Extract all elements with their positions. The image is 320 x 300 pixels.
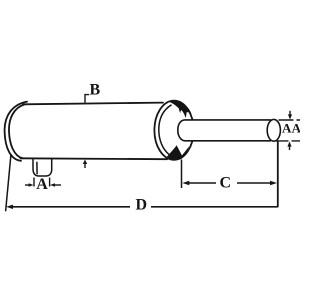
muffler body top line <box>23 103 163 105</box>
left end cap outer arc <box>5 102 27 161</box>
dimension A (stub) right extension tick <box>49 178 51 187</box>
outlet pipe end ellipse <box>267 119 280 141</box>
dimension C/D right extension line <box>277 142 279 208</box>
dimension C line right segment with arrow <box>237 182 271 184</box>
pipe diameter top extension line <box>279 119 301 121</box>
muffler body bottom line <box>21 157 168 160</box>
left end cap inner arc <box>9 104 25 158</box>
pipe diameter bottom extension line <box>276 140 300 142</box>
dimension A (stub) right arrow <box>55 184 61 186</box>
right cap top shading crescent <box>169 101 192 118</box>
svg-text:C: C <box>220 175 232 192</box>
dimension D line left segment with arrow <box>12 206 130 208</box>
dimension D line right segment <box>151 206 278 208</box>
dimension C left extension line <box>181 160 183 189</box>
pipe diameter lower arrow <box>289 146 291 150</box>
right end cap outer ellipse <box>154 101 193 160</box>
dimension D left extension line <box>6 154 11 211</box>
right end cap inner seam arc <box>159 105 172 155</box>
dimension A (stub) left arrow <box>25 184 29 186</box>
svg-text:B: B <box>90 82 101 99</box>
outlet pipe outline <box>178 120 271 141</box>
svg-text:A: A <box>36 176 48 193</box>
right cap bottom shading crescent <box>167 145 189 159</box>
svg-text:A: A <box>292 120 300 135</box>
dimension C line left segment with arrow <box>188 182 216 184</box>
svg-text:A: A <box>282 120 292 135</box>
svg-text:D: D <box>136 197 148 214</box>
pipe diameter upper arrow <box>289 111 291 116</box>
inlet stub outline <box>33 159 52 176</box>
dimension A (stub) left extension tick <box>33 178 35 187</box>
dimension B lower arrow <box>84 162 86 168</box>
dimension B tick bracket <box>85 95 89 103</box>
outlet pipe body fill <box>178 120 268 141</box>
inlet stub inner line <box>36 162 38 175</box>
